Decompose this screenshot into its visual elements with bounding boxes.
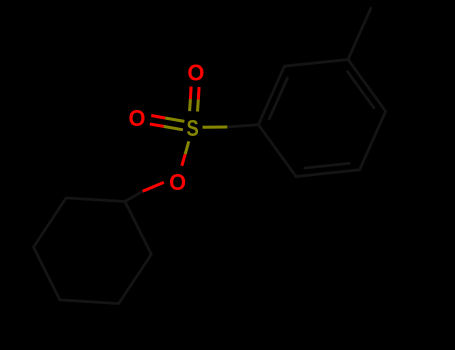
svg-text:S: S (186, 116, 198, 141)
svg-text:O: O (169, 169, 186, 195)
svg-text:O: O (128, 105, 145, 131)
svg-text:O: O (187, 60, 204, 86)
